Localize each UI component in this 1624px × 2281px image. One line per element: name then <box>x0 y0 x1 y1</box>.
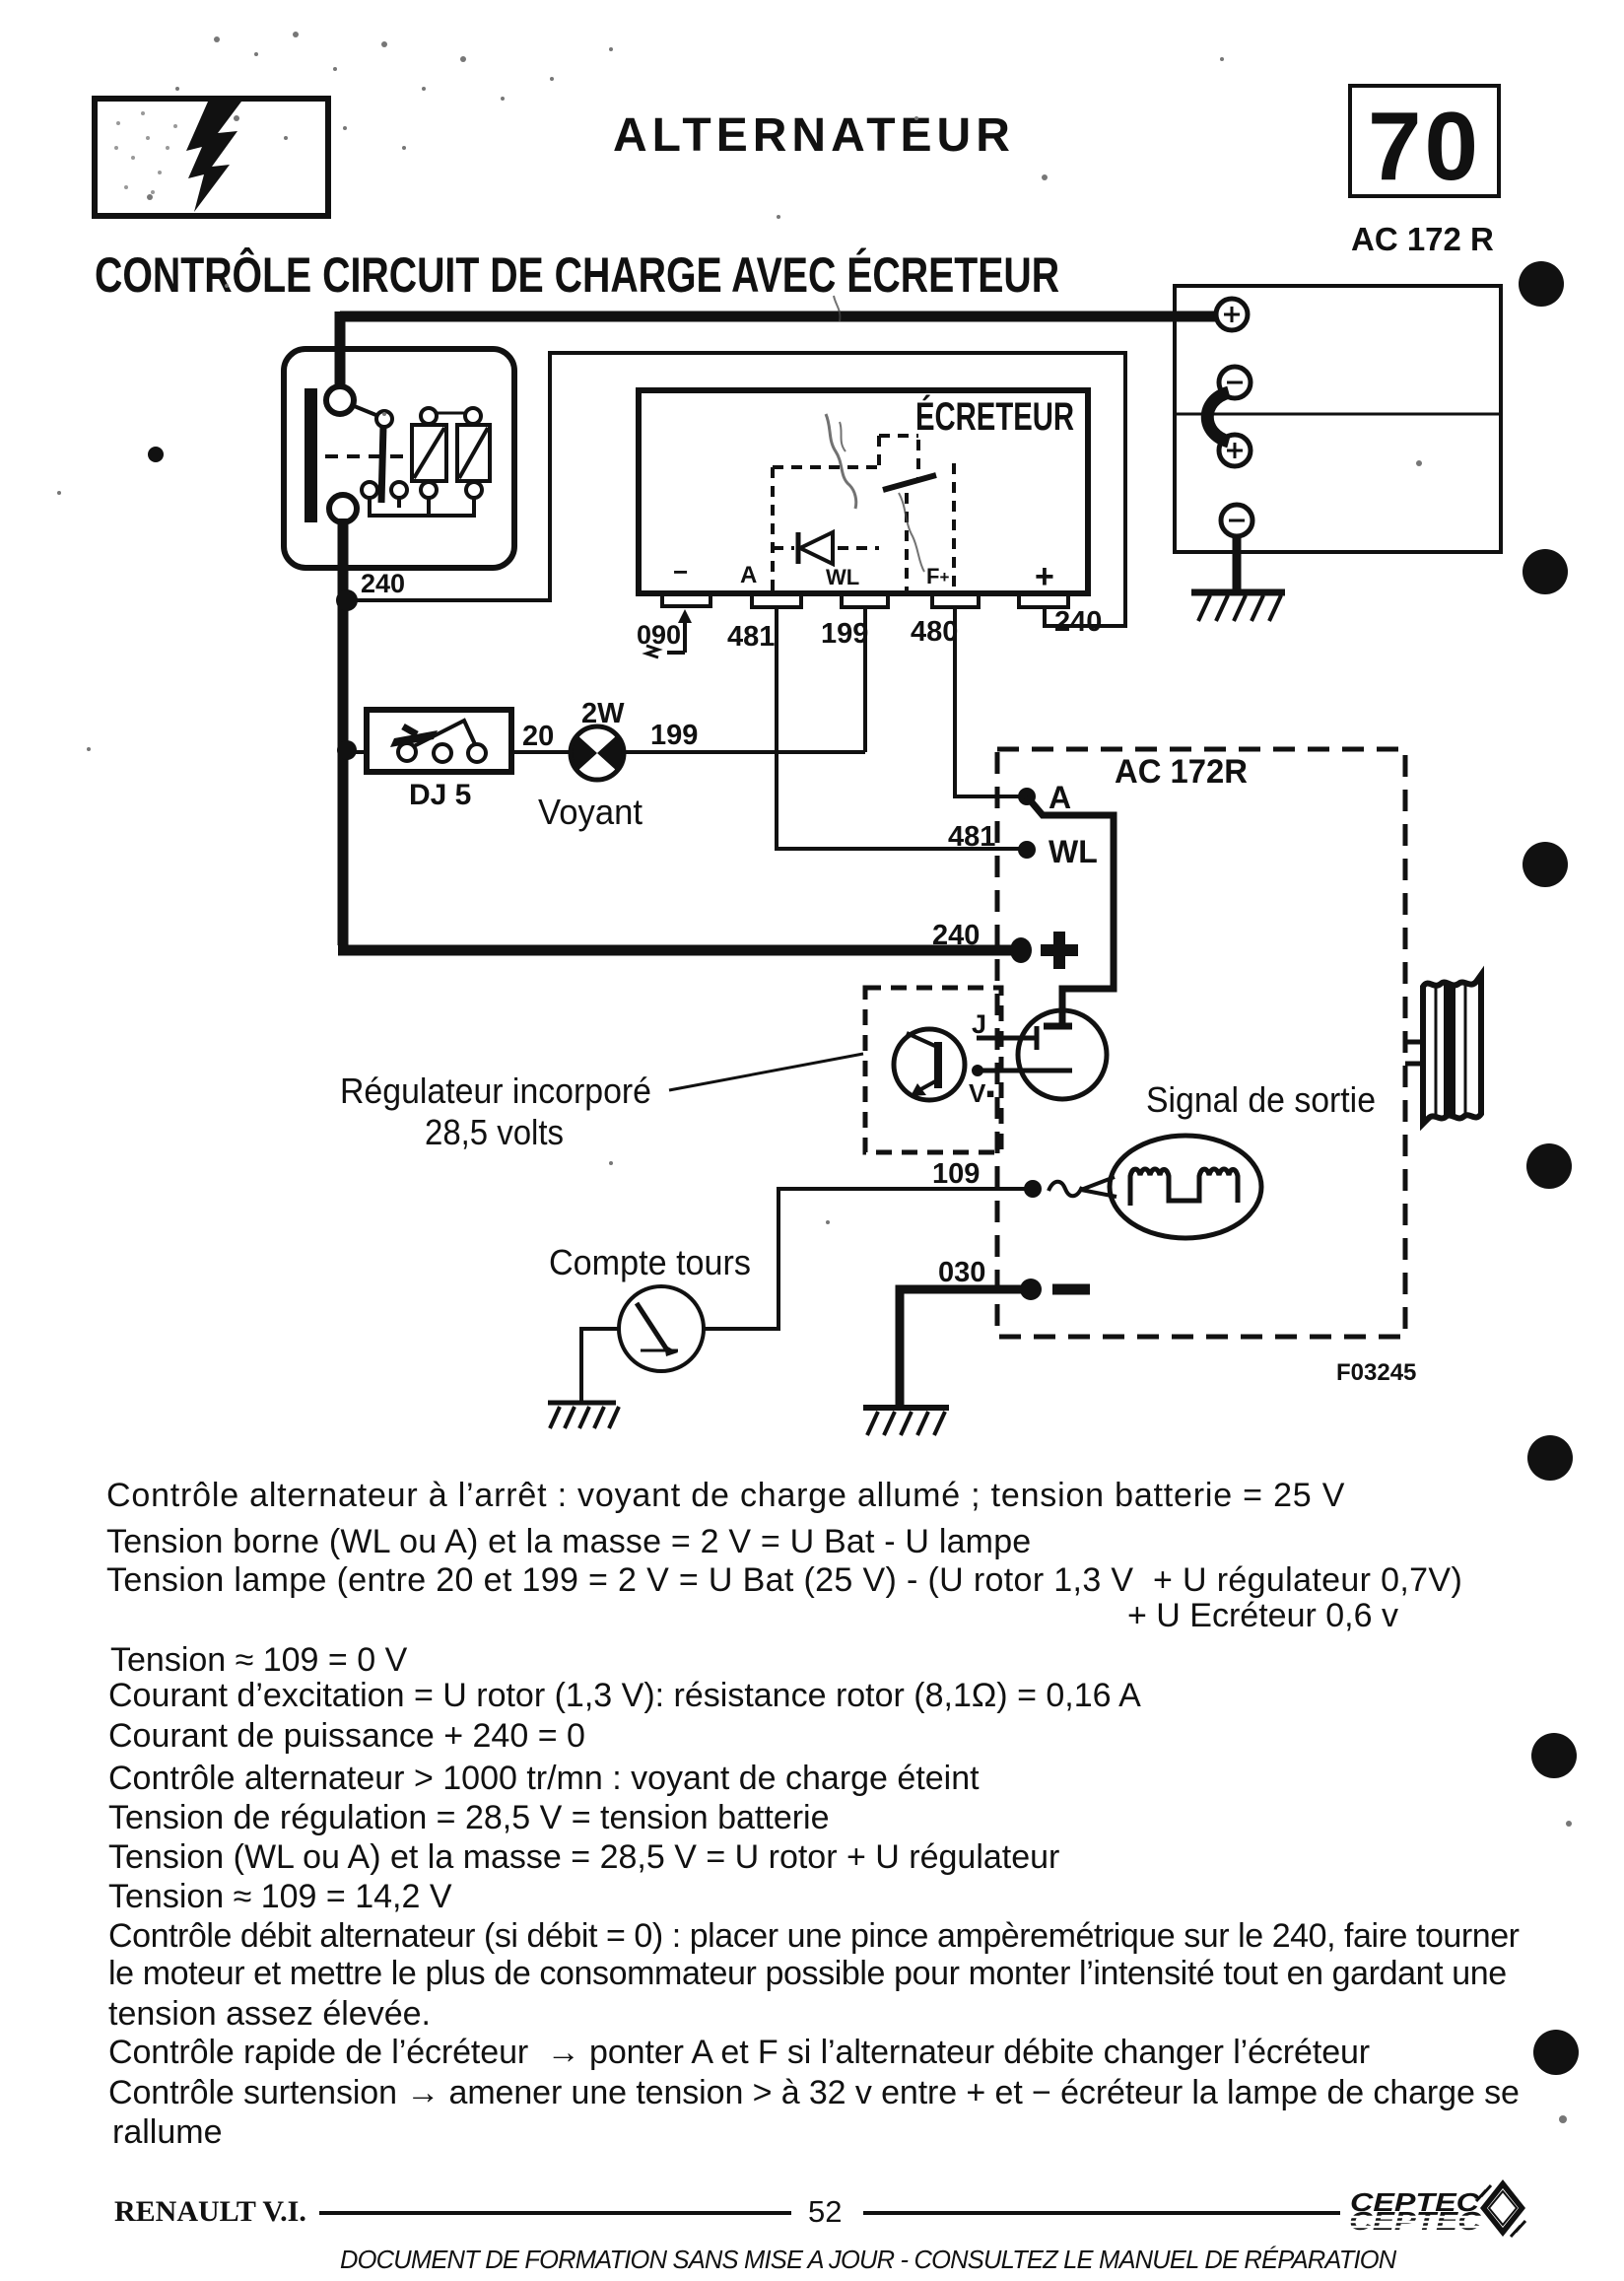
wire 109 <box>704 1189 1033 1329</box>
svg-text:A: A <box>740 562 757 588</box>
bottom text block <box>0 0 1624 1</box>
squiggle ~ at 109 <box>1049 1182 1082 1197</box>
pulley <box>1405 975 1481 1124</box>
wire Ve line <box>978 1069 1072 1073</box>
section heading <box>95 246 1059 304</box>
wire loop 240 to ecreteur + <box>347 353 1125 626</box>
battery cell link arc <box>1207 392 1229 442</box>
ground (030) <box>863 1408 949 1435</box>
wire tachometer to ground <box>581 1329 619 1401</box>
footer <box>114 2195 306 2229</box>
svg-text:240: 240 <box>932 920 980 951</box>
wire battery - to ground <box>1233 536 1242 591</box>
svg-text:WL: WL <box>1049 834 1098 869</box>
svg-text:J: J <box>972 1009 986 1039</box>
terminal 030 (alternator) <box>1020 1279 1042 1300</box>
svg-text:199: 199 <box>821 618 868 650</box>
wire 20 (fuse to lamp) <box>511 750 571 754</box>
svg-text:481: 481 <box>948 821 995 853</box>
power transistor (output stage) <box>1018 1010 1107 1099</box>
signal balloon <box>1081 1136 1261 1238</box>
wire 480 (ecreteur F+ to alt A) <box>955 607 1021 796</box>
relay <box>284 349 514 568</box>
battery <box>1175 286 1501 552</box>
wire 481 (ecreteur A to alt WL) <box>777 607 1021 849</box>
svg-text:Voyant: Voyant <box>538 792 643 832</box>
svg-text:199: 199 <box>650 720 698 751</box>
terminal 109 (alternator) <box>1024 1180 1042 1198</box>
wire 240 (relay to alternator +) <box>338 518 1015 950</box>
svg-text:F03245: F03245 <box>1336 1359 1416 1386</box>
title <box>613 108 1015 163</box>
svg-text:WL: WL <box>826 565 859 589</box>
svg-text:240: 240 <box>1054 606 1102 638</box>
fuse DJ5 <box>367 710 511 772</box>
svg-text:−: − <box>673 557 688 587</box>
pointer line to regulator <box>669 1054 863 1090</box>
wire junction to fuse <box>353 750 367 754</box>
alternator AC 172R dashed box <box>997 749 1405 1337</box>
svg-text:Compte tours: Compte tours <box>549 1242 751 1282</box>
lightning pictogram box <box>92 96 331 219</box>
junction 240/outer loop <box>336 589 358 611</box>
ceptec logo <box>1346 2179 1525 2237</box>
wire 199 (ecreteur WL down to lamp line) <box>863 607 867 752</box>
ecreteur terminal tabs <box>662 595 710 606</box>
svg-text:V▪: V▪ <box>969 1078 995 1108</box>
terminal A (alternator) <box>1018 788 1036 805</box>
svg-text:2W: 2W <box>581 698 625 729</box>
svg-text:090: 090 <box>637 620 681 650</box>
svg-text:Régulateur incorporé: Régulateur incorporé <box>340 1071 651 1111</box>
svg-text:28,5 volts: 28,5 volts <box>425 1112 564 1152</box>
switch contact (ecreteur) <box>883 475 936 490</box>
smudge artifacts <box>826 296 924 572</box>
wire gate (J line) <box>977 1026 1037 1050</box>
diode (ecreteur) <box>800 532 833 564</box>
junction 240/DJ5 <box>337 740 357 760</box>
ground (tachometer) <box>548 1403 619 1428</box>
ecreteur box <box>639 390 1088 607</box>
binder hole dots <box>1519 261 1579 2075</box>
terminal + (alternator) <box>1010 937 1032 963</box>
svg-text:109: 109 <box>932 1158 980 1190</box>
lamp voyant <box>571 726 624 782</box>
svg-text:ÉCRETEUR: ÉCRETEUR <box>915 394 1074 439</box>
wire 240 top bus (relay to battery +) <box>340 311 1218 394</box>
svg-text:Signal de sortie: Signal de sortie <box>1146 1079 1376 1120</box>
scan speckles <box>114 111 177 194</box>
transistor Q1 (regulator) <box>894 1029 965 1100</box>
wire 030 to ground <box>900 1289 1031 1406</box>
svg-text:AC 172R: AC 172R <box>1115 753 1248 791</box>
tachometer compte tours <box>619 1286 704 1371</box>
wire drain (A to power transistor) <box>1027 796 1114 1025</box>
ecreteur internal dashed circuit <box>773 436 954 593</box>
svg-text:A: A <box>1049 780 1071 815</box>
svg-text:F+: F+ <box>926 564 949 588</box>
svg-text:481: 481 <box>727 621 775 653</box>
svg-text:480: 480 <box>911 616 958 648</box>
svg-text:030: 030 <box>938 1257 985 1288</box>
70 box <box>1348 84 1501 198</box>
ground (battery) <box>1191 592 1285 621</box>
svg-text:240: 240 <box>361 569 405 598</box>
arrow 090 to tab <box>646 609 692 657</box>
svg-text:20: 20 <box>522 721 554 752</box>
wire 199 (lamp to WL vertical) <box>624 750 865 754</box>
terminal WL (alternator) <box>1018 841 1036 859</box>
svg-text:DJ 5: DJ 5 <box>409 779 471 811</box>
svg-text:+: + <box>1035 558 1054 595</box>
regulator dashed box <box>865 988 1001 1152</box>
